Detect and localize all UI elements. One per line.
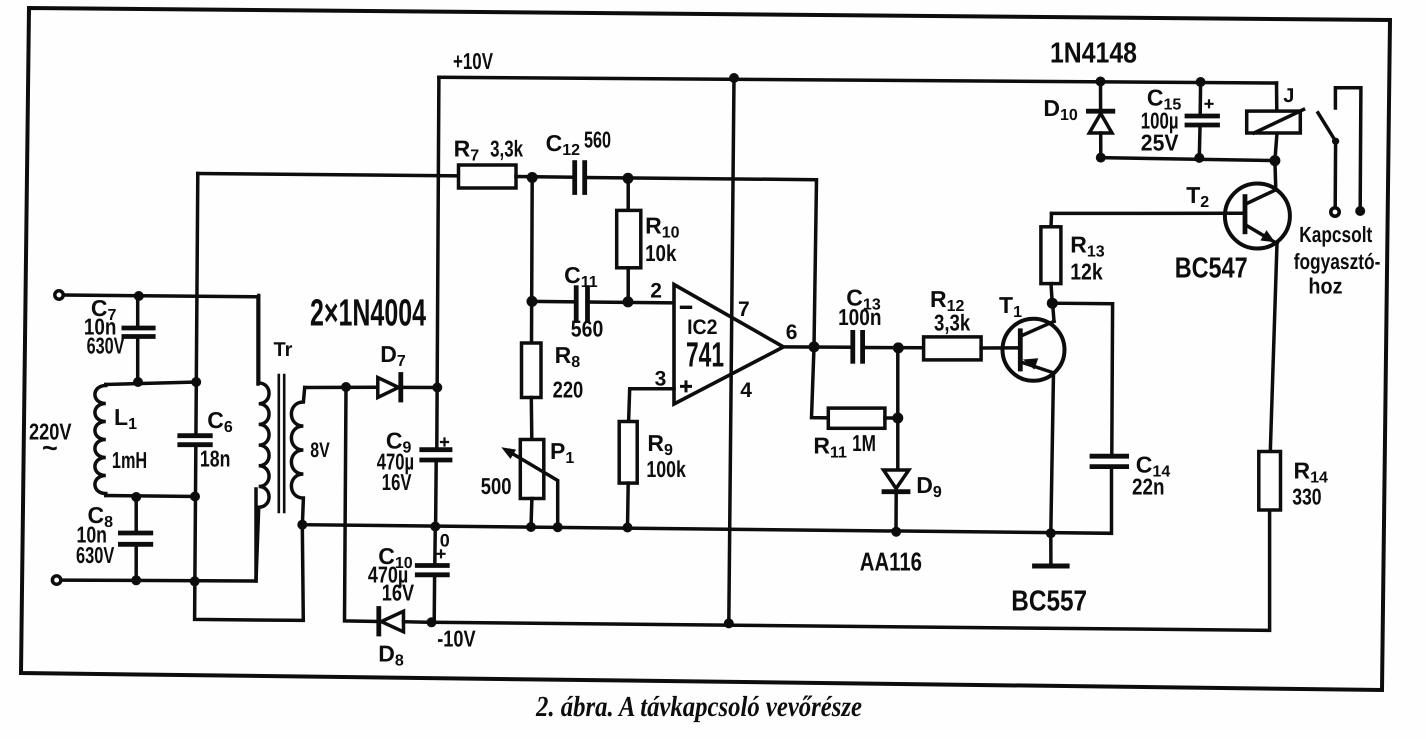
- svg-text:10k: 10k: [645, 240, 676, 266]
- wire pin7 pin4 vertical: [729, 78, 734, 623]
- wire pin3 lead: [629, 389, 674, 422]
- resistor R8: [522, 343, 542, 398]
- node C8 bottom junction: [131, 575, 141, 585]
- wire R8 branch vertical: [530, 178, 534, 344]
- capacitor C15: [1187, 82, 1218, 158]
- node tank to 220V bottom junction: [190, 576, 200, 586]
- op-amp IC2 741: [674, 285, 784, 405]
- svg-text:BC557: BC557: [1011, 586, 1087, 618]
- wire C14 branch top: [1052, 303, 1112, 454]
- diode D7: [378, 375, 437, 401]
- wire 0V rail: [302, 468, 1111, 533]
- label IC2 minus input: [682, 306, 691, 309]
- node R7 C12 R8 junction: [527, 172, 538, 183]
- relay contact switch: [1318, 88, 1365, 217]
- node 0V rail left end junction: [297, 520, 307, 530]
- node relay bottom C15 junction: [1194, 153, 1204, 163]
- potentiometer P1 wiper arrow: [501, 447, 557, 527]
- wire R8 to P1: [530, 398, 534, 440]
- node C7 top junction: [134, 291, 144, 301]
- wire T2 emitter to R14: [1270, 244, 1277, 452]
- node C13 R12 D9 junction: [893, 342, 904, 353]
- svg-text:Kapcsolt: Kapcsolt: [1299, 222, 1373, 247]
- capacitor C14: [1092, 456, 1127, 466]
- svg-text:22n: 22n: [1132, 474, 1165, 500]
- wire 220V bottom lead: [61, 489, 256, 581]
- node R11 D9 junction: [892, 413, 903, 424]
- svg-text:J: J: [1283, 85, 1294, 107]
- node 0V rail C9 junction: [430, 522, 440, 532]
- svg-text:16V: 16V: [382, 579, 415, 605]
- wire secondary top to D7: [305, 386, 378, 390]
- svg-text:1M: 1M: [852, 430, 876, 456]
- svg-text:~: ~: [42, 433, 58, 463]
- node relay bottom T2 collector junction: [1269, 155, 1280, 166]
- svg-text:500: 500: [481, 473, 512, 499]
- svg-text:330: 330: [1292, 484, 1321, 510]
- wire R11 branch: [812, 347, 829, 418]
- diode D10: [1088, 82, 1112, 158]
- diode D8: [379, 609, 431, 635]
- svg-text:12k: 12k: [1070, 259, 1103, 285]
- node C6 bottom junction: [190, 492, 200, 502]
- wire D9 branch: [896, 348, 898, 532]
- node D10 top junction: [1096, 77, 1106, 87]
- wire D8 branch vertical: [345, 387, 378, 622]
- svg-text:0: 0: [440, 531, 450, 551]
- svg-text:fogyasztó-: fogyasztó-: [1294, 249, 1381, 274]
- wire C11 to pin2: [588, 300, 675, 304]
- ground symbol: [1035, 533, 1068, 566]
- svg-text:Tr: Tr: [274, 339, 293, 361]
- svg-text:3,3k: 3,3k: [934, 310, 970, 336]
- node C7 bottom junction: [133, 377, 143, 387]
- resistor R12: [924, 337, 982, 360]
- node T1 emitter 0V junction: [1046, 528, 1056, 538]
- wire relay subcircuit bottom: [1101, 158, 1275, 161]
- svg-text:6: 6: [786, 321, 798, 344]
- svg-text:100k: 100k: [646, 456, 686, 482]
- wire L1 loop top: [106, 382, 196, 385]
- resistor R11: [828, 408, 885, 428]
- svg-text:4: 4: [740, 379, 752, 402]
- wire R11 right lead: [885, 416, 898, 420]
- node C10 bottom junction: [427, 617, 437, 627]
- svg-text:8V: 8V: [310, 439, 330, 462]
- resistor R13: [1041, 213, 1061, 303]
- wire 220V top lead: [63, 295, 258, 384]
- wire L1 loop bottom: [106, 496, 196, 497]
- svg-text:2. ábra. A távkapcsoló vevőrés: 2. ábra. A távkapcsoló vevőrésze: [535, 691, 862, 723]
- node P1 bottom junction: [526, 522, 536, 532]
- wire main vertical tank to R7: [195, 174, 304, 621]
- potentiometer P1 body: [520, 440, 544, 499]
- svg-text:220: 220: [553, 377, 584, 403]
- node R9 bottom junction: [623, 523, 633, 533]
- capacitor C8: [120, 497, 150, 580]
- wire R7 to C12: [516, 175, 574, 179]
- resistor R10: [617, 178, 641, 302]
- resistor R14: [1259, 452, 1281, 511]
- wire T1 collector: [1053, 303, 1054, 321]
- svg-text:2: 2: [650, 280, 662, 303]
- node T1 collector R13 junction: [1047, 298, 1058, 309]
- transistor T1 BC557: [1003, 319, 1065, 381]
- svg-text:1N4148: 1N4148: [1050, 38, 1137, 70]
- wire R13 to T2 base: [1052, 212, 1246, 216]
- wire C13 to R12: [863, 346, 924, 350]
- inductor L1: [95, 385, 106, 496]
- svg-text:3: 3: [655, 367, 667, 390]
- svg-text:25V: 25V: [1141, 129, 1179, 155]
- wire C12 to feedback corner: [585, 178, 817, 348]
- terminal 220V top: [55, 291, 63, 299]
- node R10 bottom junction: [623, 296, 634, 307]
- terminal 220V bottom: [52, 576, 60, 584]
- svg-text:100n: 100n: [838, 304, 881, 330]
- svg-text:560: 560: [584, 127, 611, 153]
- wire R9 bottom to 0V: [626, 483, 630, 527]
- wire C11 left lead: [532, 300, 576, 304]
- svg-text:560: 560: [571, 316, 604, 342]
- node pin4 rail junction: [724, 618, 734, 628]
- label IC2 plus input: [682, 382, 691, 391]
- capacitor C11: [576, 288, 587, 321]
- wire R12 to T1 base: [981, 346, 1021, 350]
- node D7 cathode junction: [432, 383, 442, 393]
- node pin7 +10V junction: [729, 73, 739, 83]
- svg-text:3,3k: 3,3k: [490, 136, 523, 162]
- wire T2 collector: [1273, 161, 1277, 190]
- wire +10V vertical feed: [437, 77, 439, 448]
- capacitor C12: [575, 163, 585, 193]
- svg-text:630V: 630V: [76, 542, 115, 568]
- capacitor C9: [422, 439, 450, 527]
- svg-text:741: 741: [686, 336, 724, 375]
- node R10 top junction: [623, 173, 634, 184]
- resistor R7: [459, 165, 517, 188]
- svg-text:+10V: +10V: [453, 48, 493, 74]
- node D9 bottom junction: [891, 527, 901, 537]
- svg-text:AA116: AA116: [860, 547, 922, 577]
- svg-text:BC547: BC547: [1175, 252, 1248, 284]
- resistor R9: [619, 422, 637, 484]
- transistor T2 BC547: [1225, 184, 1290, 249]
- node C6 top junction: [191, 377, 201, 387]
- node relay bottom D10 junction: [1096, 153, 1106, 163]
- diode D9: [884, 470, 909, 492]
- transformer Tr primary coil: [256, 296, 269, 582]
- wire output pin6: [784, 345, 853, 349]
- svg-text:hoz: hoz: [1308, 273, 1342, 298]
- node C11 left junction: [527, 296, 538, 307]
- node C8 top junction: [131, 492, 141, 502]
- capacitor C7: [124, 296, 153, 383]
- wire T1 emitter to 0V: [1051, 373, 1054, 533]
- transformer Tr core: [279, 375, 284, 512]
- wire -10V rail: [431, 510, 1270, 630]
- svg-text:2×1N4004: 2×1N4004: [310, 293, 426, 335]
- relay coil J: [1247, 83, 1304, 161]
- node output junction: [809, 341, 820, 352]
- wire R7 input from tank: [198, 174, 459, 176]
- node C15 top junction: [1196, 77, 1206, 87]
- node D8 branch junction: [341, 382, 351, 392]
- svg-text:16V: 16V: [382, 469, 412, 495]
- wire +10V rail: [439, 77, 1277, 83]
- capacitor C10: [417, 527, 447, 623]
- svg-text:18n: 18n: [200, 446, 231, 472]
- svg-text:1mH: 1mH: [112, 447, 147, 473]
- wire P1 bottom to 0V: [529, 499, 533, 527]
- svg-text:7: 7: [738, 298, 750, 321]
- transformer Tr secondary coil: [291, 388, 304, 525]
- svg-text:-10V: -10V: [437, 625, 476, 651]
- node P1 wiper junction: [553, 522, 563, 532]
- svg-text:630V: 630V: [87, 333, 125, 359]
- capacitor C6: [180, 436, 211, 445]
- capacitor C13: [853, 332, 863, 361]
